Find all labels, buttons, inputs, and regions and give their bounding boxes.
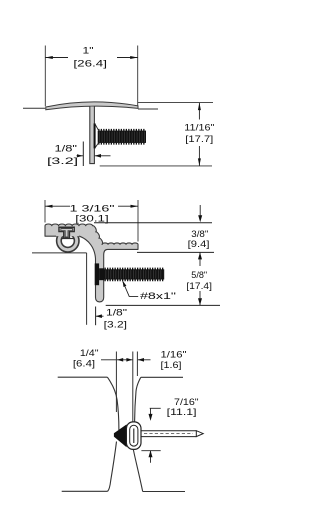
- right panel left edge upper: [135, 377, 141, 421]
- right panel top edge: [141, 376, 183, 378]
- svg-text:#8x1": #8x1": [140, 291, 176, 302]
- callout 1/8 arrow: [96, 314, 104, 318]
- pin center dashed line: [144, 433, 193, 435]
- extension line at top surface level: [94, 222, 212, 224]
- hook ring outer: [57, 230, 79, 252]
- screw threaded body: [98, 130, 146, 144]
- #8x1 leader: [123, 281, 139, 297]
- right panel bottom edge: [143, 491, 185, 493]
- dim 5/8 upper arrow: [198, 252, 202, 305]
- svg-text:1/16": 1/16": [161, 349, 187, 360]
- left panel top edge: [58, 376, 108, 378]
- svg-text:1": 1": [83, 46, 94, 57]
- svg-text:1/4": 1/4": [80, 348, 99, 359]
- svg-text:1/8": 1/8": [106, 307, 127, 318]
- callout 1/8 extension line: [95, 307, 97, 326]
- clip inner shell: [130, 425, 138, 446]
- T-molding stem: [90, 107, 95, 164]
- dim 3/8 top stub + arrow: [198, 205, 202, 222]
- dim line 1/4 with arrows: [101, 358, 133, 362]
- svg-text:[26.4]: [26.4]: [73, 58, 107, 69]
- left panel right edge lower: [108, 442, 117, 492]
- svg-text:1/8": 1/8": [55, 143, 78, 154]
- dim 1" extension line right: [137, 46, 139, 107]
- callout 1/8 left arrow: [77, 154, 84, 157]
- callout 1/8 right arrow: [95, 154, 111, 158]
- gap line D: [136, 352, 138, 377]
- screw #8x1 head: [95, 263, 104, 285]
- extension line at leg bottom: [106, 304, 220, 306]
- right panel left edge lower: [133, 450, 142, 492]
- extension line B (left panel face): [115, 352, 117, 413]
- floor line left: [23, 107, 45, 109]
- ring interior chord: [61, 238, 74, 240]
- substrate corner line vertical: [86, 253, 88, 325]
- hook ring inner: [61, 234, 74, 247]
- svg-text:[9.4]: [9.4]: [188, 239, 210, 250]
- svg-text:[11.1]: [11.1]: [167, 407, 197, 418]
- gap line C: [132, 352, 134, 422]
- svg-text:5/8": 5/8": [191, 270, 207, 281]
- svg-text:[17.4]: [17.4]: [186, 281, 212, 292]
- dim 11/16 vertical dimension line + arrows: [198, 103, 201, 166]
- cover upper part of ring with body gray: [56, 229, 79, 237]
- extension line at underside level: [137, 251, 214, 253]
- dim 1 3/16 extension line left: [44, 200, 46, 223]
- svg-text:[6.4]: [6.4]: [73, 358, 95, 369]
- left panel bottom edge: [62, 490, 108, 492]
- dim 11/16 bottom extension line: [100, 165, 212, 167]
- dim 1" extension line left: [44, 46, 46, 107]
- T-molding cap: [46, 102, 138, 110]
- black wedge: [114, 424, 127, 447]
- pin tip: [196, 431, 203, 437]
- nosing profile body: [45, 224, 138, 302]
- svg-text:[17.7]: [17.7]: [185, 134, 213, 145]
- pin shaft bottom line: [141, 436, 196, 438]
- dim 1 3/16 extension line right: [137, 200, 139, 242]
- svg-text:[1.6]: [1.6]: [161, 360, 182, 371]
- dim line 1/16 arrow: [138, 358, 151, 362]
- clip outer shell: [126, 422, 141, 450]
- screw head (countersunk): [94, 123, 99, 148]
- T-slot insert: [59, 227, 74, 238]
- clip core mark: [133, 429, 135, 444]
- dim 7/16 top leader: [149, 408, 161, 421]
- T-slot inner gray tongue: [61, 229, 73, 238]
- dim 11/16 top extension line: [138, 102, 213, 104]
- screw #8x1 body: [104, 269, 164, 281]
- callout 1/8 vertical line: [82, 142, 84, 167]
- dim 1" dimension line + arrows: [45, 56, 137, 59]
- floor line right: [138, 108, 158, 110]
- left panel right edge upper: [107, 377, 119, 430]
- pin shaft top line: [141, 430, 196, 432]
- svg-text:[3.2]: [3.2]: [47, 156, 78, 167]
- dim 7/16 bottom leader: [141, 450, 160, 463]
- svg-text:11/16": 11/16": [184, 123, 214, 134]
- svg-text:[3.2]: [3.2]: [104, 319, 127, 330]
- substrate corner line horizontal: [32, 252, 87, 254]
- dim 1 3/16 dimension line + arrows: [45, 205, 138, 208]
